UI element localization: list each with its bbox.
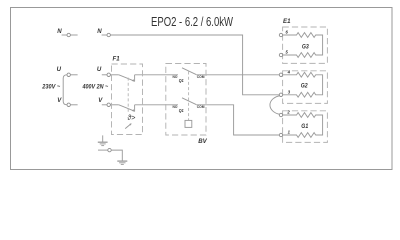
svg-text:NO: NO (173, 105, 178, 109)
svg-text:U: U (57, 66, 62, 73)
svg-text:V: V (98, 97, 103, 104)
svg-text:COM: COM (197, 105, 205, 109)
svg-text:Q1: Q1 (179, 108, 184, 113)
svg-text:N: N (97, 28, 102, 35)
svg-text:V: V (57, 97, 62, 104)
svg-text:6: 6 (286, 30, 289, 35)
svg-text:400V 2N ~: 400V 2N ~ (82, 84, 109, 91)
svg-text:BV: BV (198, 138, 207, 145)
svg-text:NO: NO (173, 75, 178, 79)
svg-text:G3: G3 (302, 44, 309, 51)
svg-text:4: 4 (287, 69, 291, 74)
svg-text:E1: E1 (283, 18, 291, 25)
svg-text:2: 2 (286, 110, 290, 115)
svg-text:COM: COM (197, 75, 205, 79)
svg-text:230V ~: 230V ~ (41, 84, 60, 91)
svg-text:G1: G1 (301, 123, 308, 130)
svg-text:Q1: Q1 (179, 78, 184, 83)
svg-text:F1: F1 (113, 56, 121, 63)
svg-text:3: 3 (288, 89, 291, 94)
svg-text:G2: G2 (301, 83, 308, 90)
svg-text:1: 1 (288, 130, 291, 135)
svg-text:ϑ>: ϑ> (127, 115, 135, 122)
svg-text:5: 5 (286, 50, 289, 55)
svg-text:U: U (97, 66, 102, 73)
svg-text:N: N (57, 28, 62, 35)
svg-text:EPO2 - 6.2 / 6.0kW: EPO2 - 6.2 / 6.0kW (151, 14, 233, 29)
